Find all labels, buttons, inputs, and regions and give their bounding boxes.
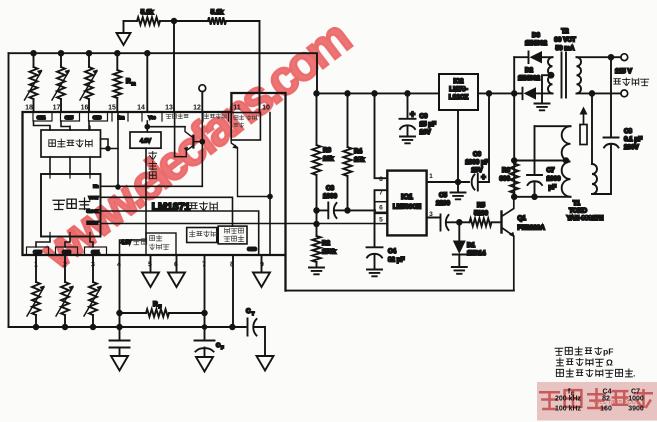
svg-text:22k: 22k [323, 156, 334, 163]
svg-text:13: 13 [165, 105, 173, 112]
ground hollow triangle below pin5 [150, 255, 152, 273]
svg-text:7: 7 [379, 190, 383, 197]
svg-text:15 μF: 15 μF [420, 121, 437, 128]
svg-text:10: 10 [262, 105, 270, 112]
wire tank bottom [514, 196, 570, 198]
svg-text:VOUT: VOUT [89, 196, 100, 200]
svg-text:pF: pF [603, 347, 614, 357]
svg-text:C4: C4 [388, 248, 397, 255]
capacitor CT in series [232, 319, 247, 336]
wires channel logic outputs right [101, 139, 119, 149]
svg-text:F: F [159, 304, 162, 309]
svg-text:Ω: Ω [606, 358, 613, 368]
svg-text:14: 14 [137, 105, 145, 112]
svg-text:1000 μF: 1000 μF [465, 159, 489, 166]
resistor Rm [116, 53, 118, 70]
wire Vcc pin to 4.3V box [146, 121, 148, 132]
wire V+ rail right section [317, 92, 514, 94]
svg-text:CLOCK: CLOCK [86, 210, 99, 214]
pin 13 label 调制输出 [166, 114, 188, 119]
svg-text:IC2: IC2 [454, 78, 464, 85]
svg-text:C5: C5 [439, 192, 448, 199]
diode D1 1N914 [457, 220, 462, 225]
svg-text:D1: D1 [467, 242, 476, 249]
pin numbers top row [25, 105, 270, 112]
svg-text:1000: 1000 [323, 193, 338, 200]
op-amp IC1 LM566CN [387, 171, 426, 236]
svg-text:150k: 150k [322, 249, 337, 256]
logo block pink background [537, 382, 657, 421]
svg-text:5.1k: 5.1k [211, 9, 224, 16]
T2 center tap to ground [542, 75, 553, 103]
wire IC1 pin 7 to C4 [375, 190, 388, 247]
wire bottom emitter rail [286, 290, 514, 292]
node junction of 5.1k resistors [172, 19, 177, 24]
wire encoder Rin [101, 185, 203, 187]
svg-text:C9: C9 [420, 113, 429, 120]
ground top (below 5.1k junction) [123, 21, 125, 33]
svg-text:R3: R3 [323, 147, 332, 154]
svg-text:Rin: Rin [93, 185, 98, 189]
svg-text:0.1 μF: 0.1 μF [624, 136, 642, 143]
svg-text:CH2: CH2 [62, 250, 71, 255]
pin boxes CH3 CH2 CH1 bottom edge [27, 247, 49, 255]
wire IC2 ground leg [457, 110, 459, 192]
wire Vcc pin 14 riser [146, 53, 148, 112]
svg-text:C3: C3 [326, 185, 335, 192]
wire AC bottom [577, 92, 621, 94]
capacitor C8 0.1uF 200V [610, 57, 612, 137]
svg-text:1N914: 1N914 [467, 250, 486, 257]
svg-text:200V: 200V [624, 144, 640, 151]
regulator block 4.3V [130, 132, 161, 148]
red diagonal watermark www.elecfans.com [31, 11, 359, 280]
transistor Q1 PN2222A [500, 212, 502, 233]
ground hollow triangle below pin9 [261, 255, 263, 273]
resistor 5.1k (right) [174, 20, 208, 22]
resistor R6 390 [510, 164, 518, 194]
wire pin12 internal [201, 112, 203, 186]
svg-text:R2: R2 [322, 240, 331, 247]
svg-text:IC1: IC1 [401, 192, 413, 201]
svg-text:C: C [246, 308, 251, 315]
note line3 根据载频选择电容 [556, 369, 632, 378]
block encoder 编码器 [41, 174, 101, 237]
svg-text:m: m [132, 81, 136, 86]
svg-text:25V: 25V [471, 167, 483, 174]
wire pin10 internal [269, 113, 271, 255]
svg-text:+: + [410, 109, 415, 119]
wire encoder RESET to IC1 pin 5 [101, 223, 376, 225]
capacitor C6 1000uF 25V [472, 175, 475, 190]
svg-text:1000: 1000 [628, 396, 644, 403]
wire IC1 pin1 line [427, 181, 469, 183]
capacitor pin4 bypass [110, 341, 130, 357]
capacitor C5 2200 [427, 215, 441, 231]
wire to pin 13 [173, 21, 175, 112]
wire to pin 10 [259, 21, 261, 113]
ground below CT [257, 356, 274, 371]
svg-text:5100: 5100 [474, 210, 489, 217]
wires CH pins to channel logic [34, 121, 90, 130]
wire Vcc internal rail to transistor collector [147, 126, 185, 128]
op-amp U-LM1871 IC outline [23, 93, 286, 291]
diode D3 1N4002 [514, 52, 528, 64]
tuning slug with arrow [580, 125, 587, 145]
capacitor CF [195, 340, 215, 342]
block channel logic 通道加逻辑 [41, 130, 101, 157]
node AC terminal top [621, 54, 628, 61]
resistor R4 18k [347, 93, 349, 147]
wire pin6 line [348, 209, 376, 211]
capacitor C7 1000pF [534, 126, 536, 174]
svg-text:CH1: CH1 [91, 250, 100, 255]
resistor R2 150k [316, 224, 318, 236]
wire pin 8 column [232, 255, 234, 327]
svg-text:CH5: CH5 [65, 115, 74, 120]
svg-text:CH6: CH6 [93, 115, 102, 120]
node AC terminal bottom [621, 90, 628, 97]
svg-text:LM566CN: LM566CN [393, 204, 422, 211]
svg-text:3900: 3900 [628, 406, 644, 413]
svg-text:Vcc: Vcc [148, 115, 156, 120]
svg-text:pF: pF [549, 184, 557, 191]
block 脉冲定时器 [218, 226, 247, 244]
svg-text:50 mA: 50 mA [556, 45, 575, 52]
note line1 电容单位为pF [555, 347, 603, 356]
svg-text:1N4002: 1N4002 [518, 75, 541, 82]
svg-text:C4: C4 [603, 389, 612, 396]
pin numbers bottom row [34, 262, 264, 269]
svg-text:YAN-88827N: YAN-88827N [567, 215, 604, 222]
transistor internal Q-mod (pin13) [192, 136, 194, 148]
transformer T2 core [562, 53, 567, 98]
resistor R3 22k [316, 93, 318, 145]
ground below CF [196, 357, 213, 372]
svg-text:C7: C7 [631, 389, 640, 396]
svg-text:5: 5 [379, 217, 383, 224]
svg-text:PN2222A: PN2222A [518, 225, 546, 232]
potentiometer CH pin 16 [88, 53, 90, 67]
wire encoder CLOCK [101, 211, 259, 255]
wire rectifier vertical [513, 57, 515, 197]
wire encoder VOUT [101, 197, 233, 226]
svg-text:30 VCT: 30 VCT [554, 37, 576, 44]
svg-text:4.3V: 4.3V [121, 240, 132, 246]
wire pin 7 column [204, 255, 206, 340]
svg-text:CH3: CH3 [33, 250, 42, 255]
pin 12 label 调制耦接 [204, 114, 226, 119]
svg-text:T2: T2 [561, 28, 569, 35]
svg-text:15: 15 [108, 105, 116, 112]
wire pin15 internal Rm line [117, 112, 119, 187]
capacitor C4 82pF [367, 246, 383, 248]
svg-text:100 kHz: 100 kHz [555, 406, 582, 413]
wire IC1 pin 8 from rail [375, 93, 388, 178]
pin boxes CH4 CH5 CH6 Rm Vcc top edge [33, 112, 52, 121]
label 输出级 vertical [149, 151, 157, 159]
resistor 5.1k (left) [124, 20, 138, 22]
svg-text:TOKO: TOKO [569, 208, 587, 215]
svg-text:LM78-: LM78- [449, 86, 467, 93]
potentiometer bottom ch pin at x=65 [64, 255, 66, 282]
svg-text:C8: C8 [624, 128, 633, 135]
svg-text:16: 16 [81, 105, 89, 112]
svg-text:D2: D2 [525, 67, 534, 74]
potentiometer CH pin 17 [60, 53, 62, 67]
svg-text:8: 8 [379, 176, 383, 183]
capacitor C9 15uF 16V [407, 93, 409, 118]
pin stub boxes 6 and 5 [375, 202, 388, 213]
transformer T2 secondary coil [577, 57, 582, 93]
resistor RF [120, 312, 147, 314]
potentiometer bottom ch pin at x=93 [92, 255, 94, 282]
svg-text:C6: C6 [473, 151, 482, 158]
node terminal circle above pin 12 [199, 85, 206, 92]
note line2 电阻单位为Ω [556, 358, 604, 367]
svg-text:18: 18 [25, 105, 33, 112]
svg-text:R6: R6 [502, 167, 511, 174]
capacitor C3 1000 [317, 203, 329, 219]
svg-text:82 pF: 82 pF [388, 257, 405, 264]
logo 电子发烧友 red characters [539, 388, 653, 409]
wire left bus vertical [8, 53, 10, 327]
svg-text:GND: GND [247, 247, 256, 252]
potentiometer bottom ch pin at x=36 [35, 255, 37, 282]
svg-text:18k: 18k [354, 157, 365, 164]
svg-text:LM1871: LM1871 [152, 201, 191, 213]
wire AC top [577, 56, 621, 58]
svg-text:T1: T1 [573, 200, 581, 207]
wires channel logic to encoder [50, 157, 90, 174]
svg-text:12: 12 [193, 105, 201, 112]
svg-text:R: R [126, 78, 131, 85]
svg-text:200 kHz: 200 kHz [555, 396, 582, 403]
svg-text:R: R [153, 301, 158, 308]
ground below pin4 capacitor [111, 356, 128, 371]
regulator IC2 LM78L12CZ [439, 74, 478, 110]
svg-text:F: F [221, 345, 224, 350]
resistor R5 5100 [459, 221, 469, 223]
svg-text:T: T [252, 311, 255, 316]
wires encoder bottom to CH1-CH3 [36, 237, 93, 248]
ground hollow triangle below pin6 [176, 255, 178, 273]
svg-text:1N4002: 1N4002 [525, 40, 548, 47]
diode D2 1N4002 [514, 88, 523, 100]
svg-text:115 V: 115 V [615, 68, 632, 75]
svg-text:D3: D3 [532, 32, 541, 39]
svg-text:16V: 16V [420, 129, 432, 136]
svg-text:11: 11 [233, 105, 241, 112]
transistor internal Q-rf (pin11) with emitter arrow [231, 140, 270, 197]
svg-text:R4: R4 [354, 148, 363, 155]
svg-text:CH4: CH4 [37, 115, 46, 120]
svg-text:17: 17 [53, 105, 61, 112]
svg-text:.: . [633, 369, 635, 379]
transformer T1 tank coil [535, 125, 571, 127]
svg-text:6: 6 [379, 205, 383, 212]
svg-text:160: 160 [600, 406, 612, 413]
svg-text:390: 390 [499, 176, 510, 183]
svg-text:82: 82 [602, 396, 610, 403]
wire C6 to raw rail [488, 93, 490, 182]
potentiometer CH pin 18 [33, 53, 35, 67]
block RF oscillator/output box [231, 113, 260, 141]
transformer T1 output coil [591, 93, 593, 164]
svg-text:L12CZ: L12CZ [449, 94, 469, 101]
svg-text:R5: R5 [477, 202, 486, 209]
wire pin13 internal [174, 112, 176, 157]
wire pin 4 column [119, 255, 121, 340]
svg-text:2200: 2200 [436, 200, 451, 207]
svg-text:RESET: RESET [87, 221, 100, 225]
svg-text:4.3V: 4.3V [140, 139, 151, 145]
svg-text:5.1k: 5.1k [141, 9, 154, 16]
block 恒定时基 [187, 228, 217, 243]
wire bottom bus [9, 326, 233, 328]
transformer T2 primary coil [548, 57, 553, 93]
svg-text:Q1: Q1 [518, 215, 527, 222]
wire 4.3V box down to pin 4 [120, 148, 147, 255]
svg-text:C7: C7 [547, 167, 556, 174]
block 通道加逻辑 small (pins5-6) [146, 233, 176, 255]
wire C3 junction to pin5 line [316, 210, 318, 224]
wire tank tap [514, 160, 566, 162]
svg-text:1000: 1000 [547, 176, 562, 183]
svg-text:1: 1 [429, 173, 433, 180]
wire V+ top rail [9, 53, 318, 93]
